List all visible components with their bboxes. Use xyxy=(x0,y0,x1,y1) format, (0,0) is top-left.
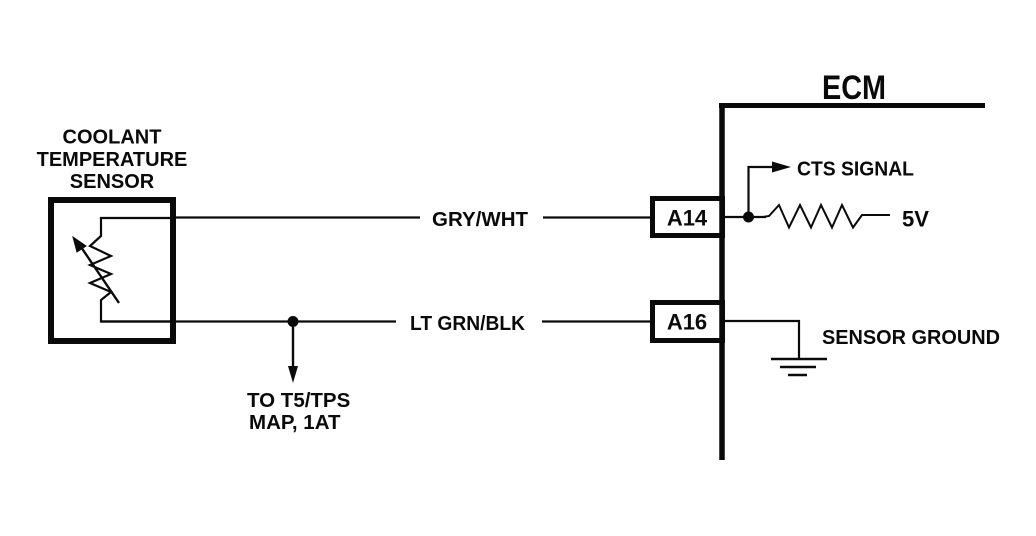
svg-text:A16: A16 xyxy=(667,310,707,335)
coolant temperature sensor box xyxy=(51,200,173,341)
junction dot on LT GRN/BLK wire xyxy=(288,316,299,327)
arrow down to other sensors xyxy=(292,327,294,370)
ECM enclosure vertical line xyxy=(719,103,725,460)
wire from A16 to ground xyxy=(725,321,799,358)
svg-text:TEMPERATURE: TEMPERATURE xyxy=(37,149,188,171)
ground symbol xyxy=(771,358,827,361)
svg-text:LT GRN/BLK: LT GRN/BLK xyxy=(410,312,525,335)
svg-text:SENSOR GROUND: SENSOR GROUND xyxy=(822,326,1000,349)
wire from A14 through junction xyxy=(725,216,766,218)
connector pin A16 box xyxy=(653,303,723,341)
thermistor arrow xyxy=(81,247,119,303)
ECM enclosure top line xyxy=(719,103,985,108)
svg-text:5V: 5V xyxy=(902,207,929,232)
connector pin A14 box xyxy=(653,199,723,236)
svg-text:ECM: ECM xyxy=(822,69,886,107)
wire GRY/WHT left segment xyxy=(173,216,420,218)
wire LT GRN/BLK right segment xyxy=(542,320,652,322)
svg-text:TO T5/TPS: TO T5/TPS xyxy=(247,389,350,412)
svg-text:A14: A14 xyxy=(667,206,708,231)
svg-text:SENSOR: SENSOR xyxy=(70,171,155,193)
svg-text:COOLANT: COOLANT xyxy=(63,127,162,149)
svg-text:MAP, 1AT: MAP, 1AT xyxy=(249,411,341,434)
wire LT GRN/BLK left segment xyxy=(101,320,396,322)
junction dot at A14 xyxy=(743,212,754,223)
pull-up resistor to 5V xyxy=(763,205,890,228)
svg-text:GRY/WHT: GRY/WHT xyxy=(432,208,529,231)
svg-text:CTS SIGNAL: CTS SIGNAL xyxy=(797,158,914,181)
wire to CTS SIGNAL arrow xyxy=(749,167,776,217)
coolant temperature sensor label xyxy=(37,127,188,194)
thermistor element xyxy=(90,218,176,322)
wire GRY/WHT right segment xyxy=(543,216,652,218)
